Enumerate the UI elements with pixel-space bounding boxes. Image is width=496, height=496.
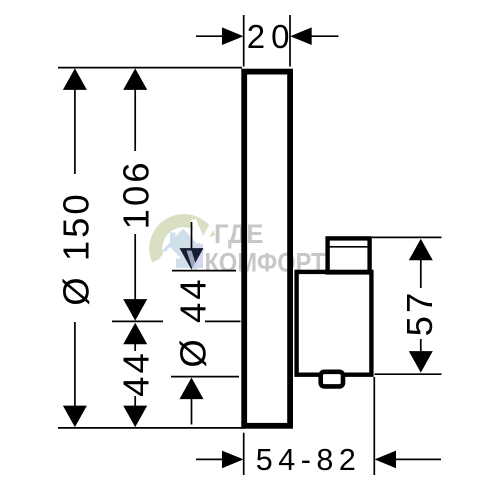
dim 20 right arrow [290,27,312,45]
dim 54-82 right extension line [373,377,375,475]
svg-text:Ø 150: Ø 150 [56,191,97,305]
plate body [244,72,290,426]
watermark logo white arrow [159,247,181,268]
dim d44 lower arrow and stem [180,378,204,400]
dim 57 top extension line [372,236,442,238]
svg-text:57: 57 [399,290,440,337]
dim 57 line with arrows [409,239,433,260]
dim 106 line with arrows [123,68,147,90]
svg-text:ГДЕ: ГДЕ [214,219,264,249]
watermark stripe over arrow [187,251,198,270]
svg-text:20: 20 [247,18,296,55]
svg-text:44: 44 [115,350,156,397]
dim d44 upper stem and arrow [191,222,193,251]
watermark logo white checkmark [193,220,213,244]
dim 150 line with arrows [63,68,87,90]
dim 44 boundary extension line [112,320,163,322]
watermark logo lavender band [194,240,204,268]
dim d44 bottom extension line [171,376,239,378]
dim 54-82 left arrow [196,458,226,460]
knob bottom notch [321,372,343,387]
watermark logo chimney [170,233,176,243]
svg-text:106: 106 [115,159,156,229]
dim d44 top extension line [172,270,236,272]
svg-text:Ø 44: Ø 44 [173,276,214,367]
svg-text:54-82: 54-82 [256,443,362,477]
dim 20 left extension line [243,15,245,67]
dim 150 top extension line [58,67,242,69]
dim 20 right extension line [289,15,291,67]
dim 44 line with arrows [123,323,147,345]
knob cap bevel line [328,246,370,248]
dim 57 bottom extension line [375,373,442,375]
dim 20 left arrow [196,35,226,37]
dim 54-82 right arrow [375,451,397,469]
dim 150 bottom extension line [58,427,245,429]
dim 54-82 left extension line [243,433,245,475]
watermark logo house [162,229,205,269]
knob body [297,272,372,375]
knob cap [328,238,370,272]
watermark logo green arc [156,221,210,260]
